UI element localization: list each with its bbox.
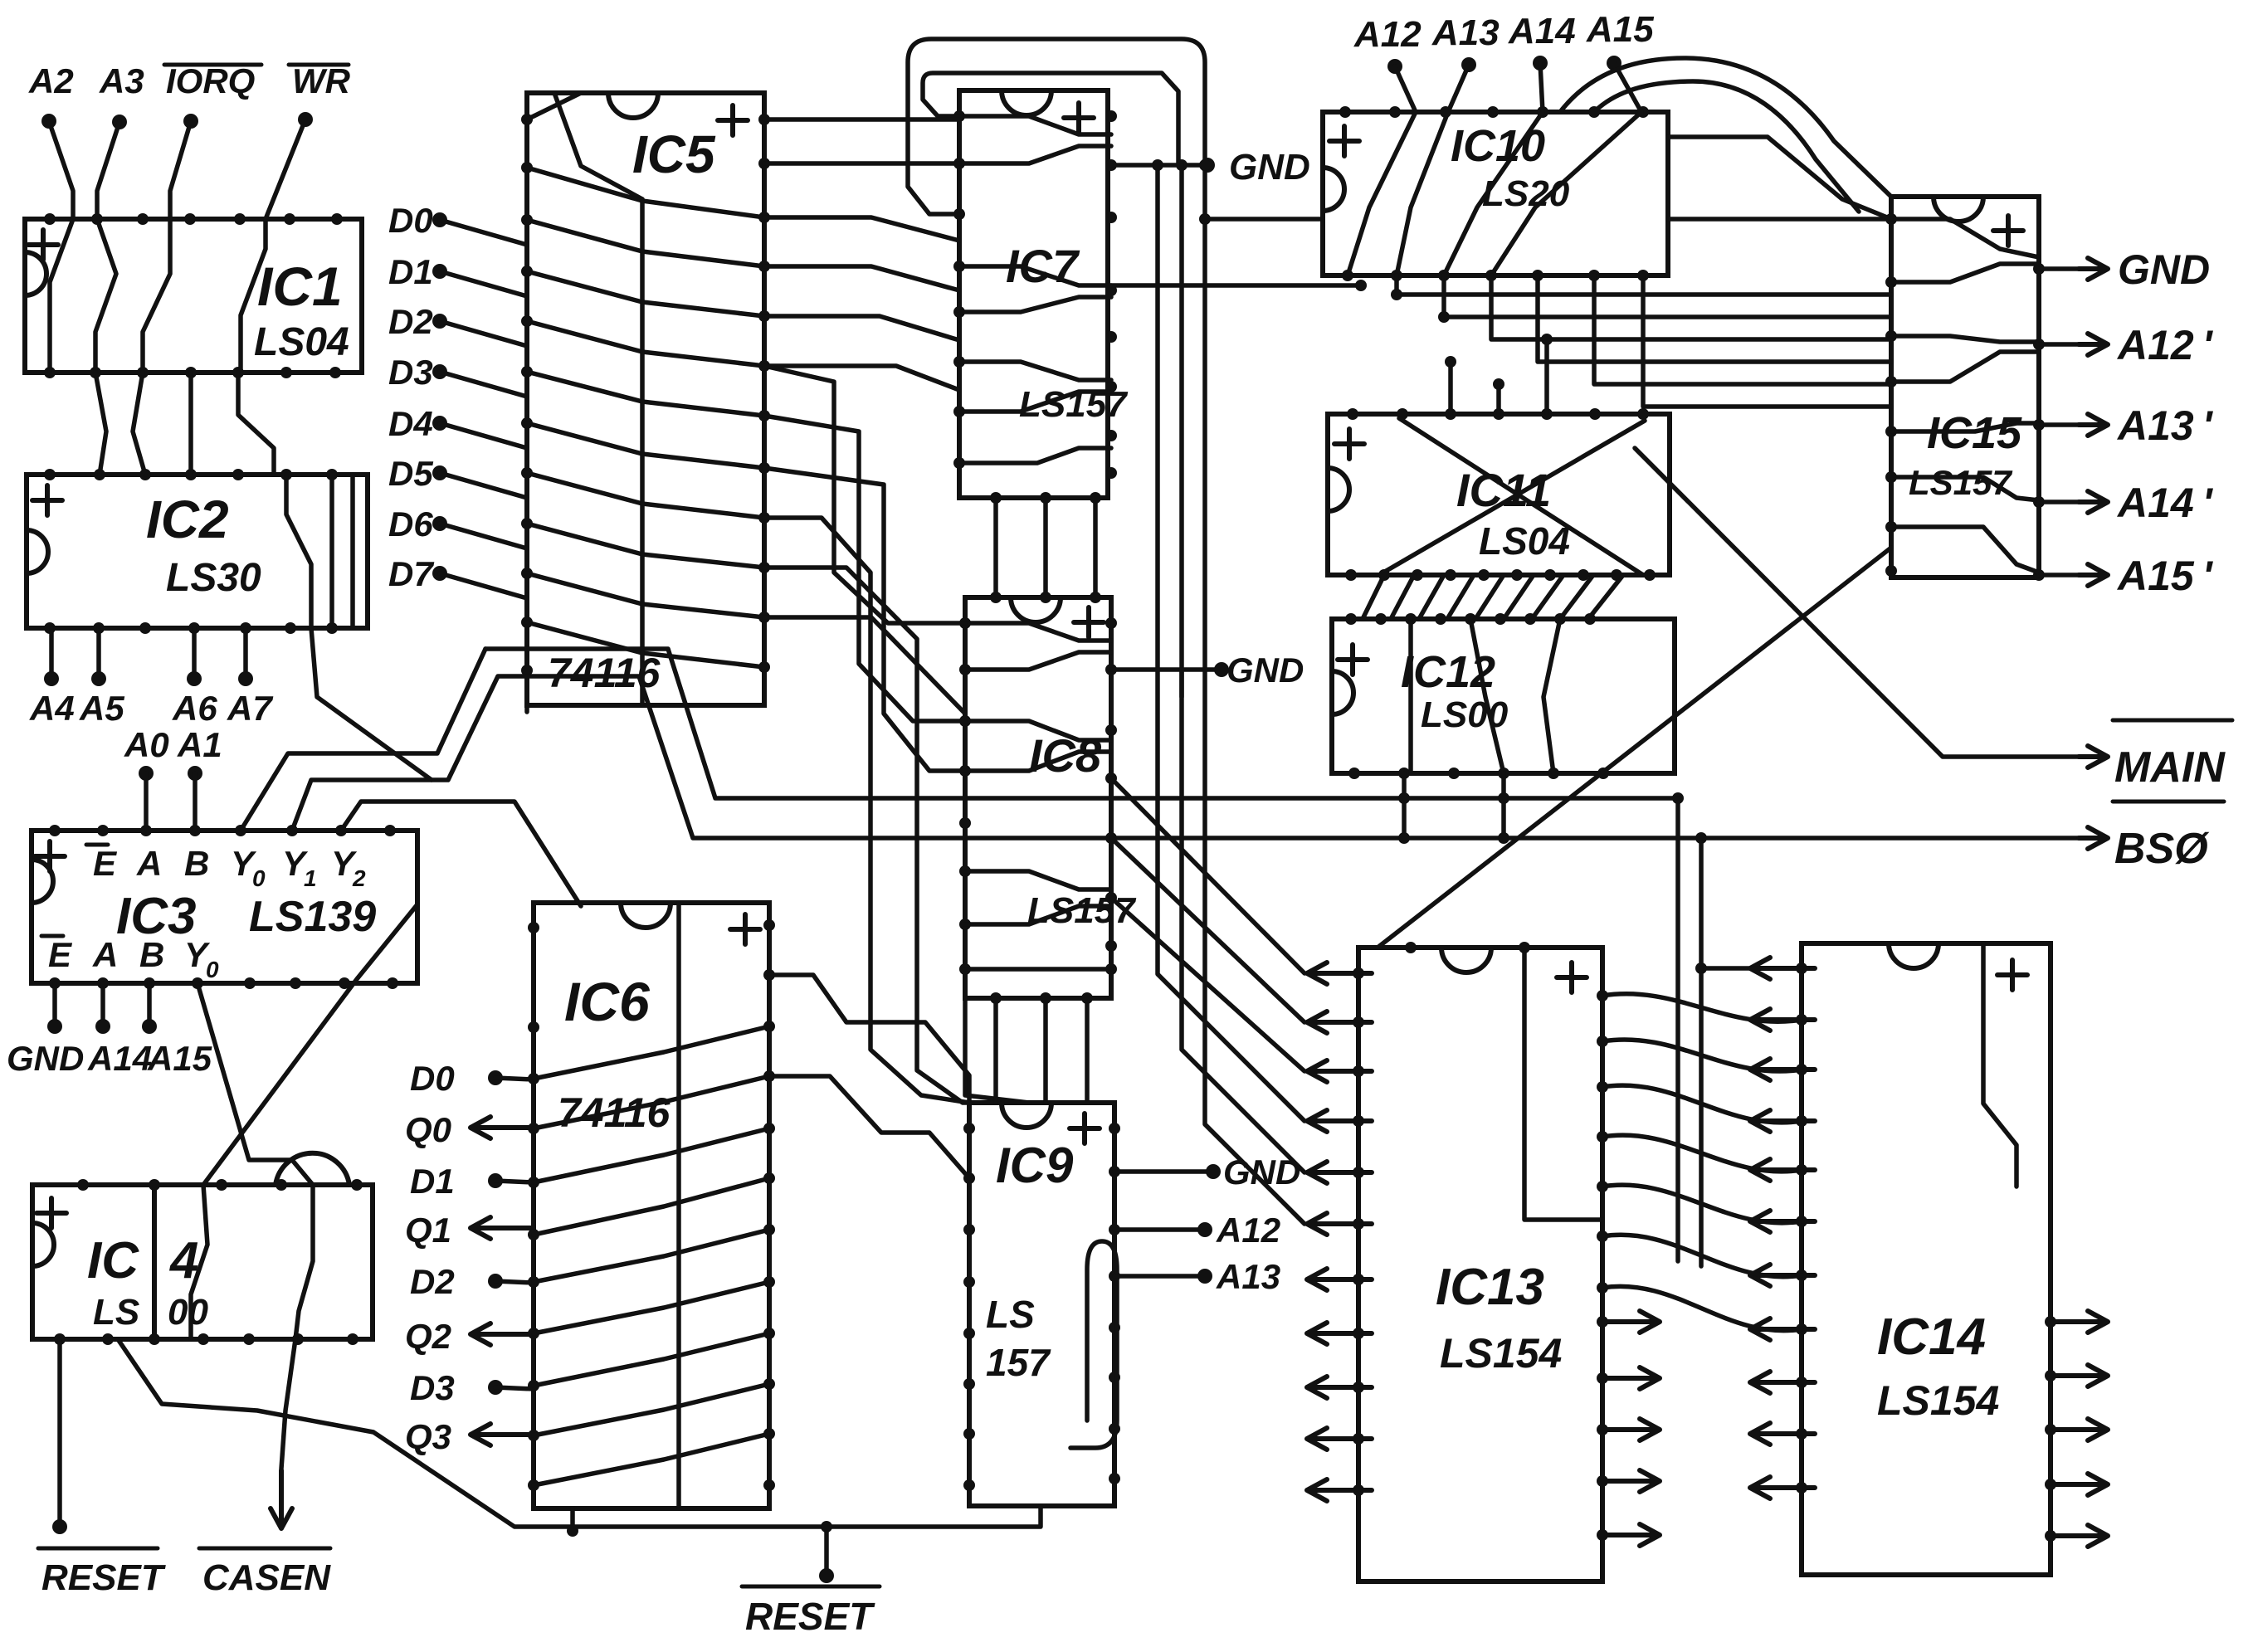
node GND at IC9 xyxy=(1114,1169,1213,1174)
IC4 bottom pin dots xyxy=(54,1333,358,1345)
svg-text:A4: A4 xyxy=(29,689,75,728)
IC15 wire to A13' xyxy=(1891,423,2039,431)
wire WR to IC1/IC2 xyxy=(241,119,305,373)
IC6 box 74116 xyxy=(534,903,769,1508)
IC1 plus (pin14 +) xyxy=(28,230,58,260)
wire A14 lead xyxy=(1540,63,1543,112)
node A7 xyxy=(243,628,248,679)
IC1 top pin dots xyxy=(44,213,343,225)
wire GND top rail xyxy=(764,161,959,166)
IC5 internal vertical xyxy=(640,199,645,705)
wire IC5 down bundle a xyxy=(764,518,969,1103)
svg-text:00: 00 xyxy=(168,1292,208,1333)
wire IC1 to IC2 v1 xyxy=(95,373,106,475)
wire A13 lead xyxy=(1448,65,1469,112)
node GND right xyxy=(2039,266,2079,271)
node D0 (IC6) xyxy=(488,1070,503,1085)
IC7 funnel 2 xyxy=(959,266,1111,285)
svg-text:D0: D0 xyxy=(410,1059,455,1098)
IC8 funnel 3 xyxy=(965,871,1111,889)
IC11 bottom pin dots xyxy=(1345,569,1656,581)
IC15 plus xyxy=(1993,216,2023,246)
IC10 top pin dots xyxy=(1339,106,1649,118)
node Q2 (IC6) xyxy=(471,1323,534,1345)
node D2 (IC6) xyxy=(488,1274,503,1289)
wire IC5 to IC7 links xyxy=(764,117,959,122)
wire bus vertical B xyxy=(1182,165,1304,1172)
wire IC6 to IC9 step a xyxy=(769,975,969,1103)
svg-text:LS139: LS139 xyxy=(249,893,376,941)
wire staircase S2 / BS0 rail xyxy=(292,676,2079,838)
svg-text:GND: GND xyxy=(1229,147,1310,188)
svg-text:GND: GND xyxy=(2118,246,2210,293)
svg-text:IC9: IC9 xyxy=(996,1138,1074,1193)
svg-text:D1: D1 xyxy=(410,1162,455,1201)
wire staircase S1 from IC3 Y0 xyxy=(241,649,485,831)
svg-text:IC5: IC5 xyxy=(632,124,716,184)
wire IC6 bottom stub xyxy=(570,1508,575,1531)
IC7 funnel 1 xyxy=(959,116,1111,134)
svg-text:E: E xyxy=(93,844,118,883)
node D1 (IC6) xyxy=(488,1173,503,1188)
IC3 top pin dots xyxy=(49,825,396,836)
svg-text:IORQ: IORQ xyxy=(166,61,255,101)
svg-text:D7: D7 xyxy=(388,554,434,593)
node BS0 label xyxy=(2113,800,2224,804)
svg-text:E: E xyxy=(48,935,73,974)
node A14 under IC3 xyxy=(100,983,105,1026)
svg-text:A15: A15 xyxy=(147,1039,212,1078)
node Q0 (IC6) xyxy=(471,1117,534,1138)
svg-text:LS154: LS154 xyxy=(1877,1377,1999,1424)
IC7 funnel 3 xyxy=(959,362,1111,380)
svg-text:Q2: Q2 xyxy=(405,1317,451,1357)
wire crossings top right xyxy=(1668,137,1891,219)
node D4 xyxy=(432,416,447,431)
svg-text:LS157: LS157 xyxy=(1027,890,1137,931)
IC7 left pin dots xyxy=(953,110,965,469)
wire WR through IC2 xyxy=(286,475,311,628)
svg-text:A15: A15 xyxy=(1586,9,1654,50)
IC5 box 74116 xyxy=(527,93,764,705)
IC9 plus xyxy=(1070,1114,1100,1143)
svg-text:LS04: LS04 xyxy=(1479,519,1570,563)
svg-text:A12 ': A12 ' xyxy=(2116,322,2214,368)
IC10 box LS20 xyxy=(1323,112,1668,275)
svg-text:0: 0 xyxy=(252,865,266,891)
svg-text:IC6: IC6 xyxy=(564,971,651,1032)
node MAIN label xyxy=(2113,719,2232,723)
svg-text:A12: A12 xyxy=(1353,14,1422,55)
IC6 internal vertical xyxy=(676,903,681,1508)
svg-text:A13: A13 xyxy=(1431,12,1500,53)
IC4 box LS00 xyxy=(32,1185,373,1339)
wire IC1 to IC2 v4 xyxy=(238,373,274,475)
wire D3 lead xyxy=(495,1387,534,1389)
node A4 xyxy=(49,628,54,679)
IC13 box LS154 xyxy=(1358,948,1602,1581)
IC2 plus xyxy=(32,485,62,515)
wire bundle crossing dots xyxy=(1391,289,1553,390)
IC8 box LS157 xyxy=(965,597,1111,998)
wire IC8-IC9 vertical links xyxy=(993,998,998,1103)
wire bus crossing dots xyxy=(1152,159,1211,171)
node A5 xyxy=(96,628,101,679)
wire D6 lead xyxy=(440,524,527,548)
IC4 divider xyxy=(152,1185,157,1339)
node A12 at IC9 xyxy=(1114,1227,1205,1232)
IC8 funnel 2 xyxy=(965,721,1111,740)
wire broom IC11 to IC12 xyxy=(1363,575,1384,619)
wire wavy IC13 to IC14 xyxy=(1602,994,1802,1021)
svg-text:A14: A14 xyxy=(87,1039,152,1078)
node A12 top xyxy=(1387,59,1402,74)
wire D7 lead xyxy=(440,573,527,598)
wire IC8 corner down to IC9 xyxy=(965,998,1029,1103)
node A1 xyxy=(188,766,202,781)
node A14' output xyxy=(2039,499,2079,504)
svg-text:LS: LS xyxy=(93,1292,139,1333)
IC8 right pin dots xyxy=(1105,617,1117,975)
wire IC10 curve to IC15 xyxy=(1560,58,1891,197)
IC3 box LS139 xyxy=(32,831,417,983)
IC5 right pin dots xyxy=(758,114,770,673)
wire IC6 to IC9 step b xyxy=(769,1076,969,1178)
IC13 plus xyxy=(1557,962,1587,992)
node A14 top xyxy=(1533,56,1548,71)
wire A15 lead xyxy=(1614,63,1641,112)
wire IORQ to IC1 xyxy=(143,121,191,373)
IC14 left input arrows xyxy=(1750,958,1815,979)
wire D4 lead xyxy=(440,423,527,448)
wire A2 to IC1 xyxy=(49,121,73,373)
node A12' output xyxy=(2039,342,2079,347)
node GND mid xyxy=(1214,662,1229,677)
node D6 xyxy=(432,516,447,531)
wire MAIN diagonal xyxy=(1635,448,2079,757)
node CASEN xyxy=(271,1470,292,1528)
node D3 xyxy=(432,364,447,379)
IC5 plus xyxy=(718,105,748,135)
svg-text:A2: A2 xyxy=(28,61,74,100)
IC7 box LS157 xyxy=(959,90,1108,498)
wire D5 lead xyxy=(440,473,527,498)
wire A1 xyxy=(193,773,198,831)
IC7 plus xyxy=(1064,103,1094,133)
node A13' output xyxy=(2039,422,2079,427)
IC15 funnel 2 xyxy=(1891,336,2039,342)
svg-text:LS154: LS154 xyxy=(1440,1330,1562,1377)
svg-text:D1: D1 xyxy=(388,252,433,291)
wire loop over IC7 outer xyxy=(908,39,1304,1224)
IC9 box LS157 xyxy=(969,1103,1114,1506)
svg-text:0: 0 xyxy=(206,957,219,982)
svg-text:Q1: Q1 xyxy=(405,1211,451,1250)
svg-text:A1: A1 xyxy=(177,725,222,764)
wire staircase S3 xyxy=(341,802,581,906)
wire GND mid rail xyxy=(1111,667,1222,672)
wire IC11 top stubs xyxy=(1448,362,1453,414)
svg-text:A5: A5 xyxy=(79,689,124,728)
wire GND from IC8 riser xyxy=(1179,670,1184,697)
node D3 (IC6) xyxy=(488,1380,503,1395)
IC8 plus xyxy=(1074,607,1104,637)
svg-text:LS157: LS157 xyxy=(1909,463,2012,502)
svg-text:B: B xyxy=(139,935,164,974)
svg-text:B: B xyxy=(184,844,209,883)
wire D2 lead xyxy=(495,1281,534,1283)
wire verticals between IC13 and IC14 xyxy=(1675,798,1680,1261)
node A15' output xyxy=(2039,573,2079,577)
svg-text:Q3: Q3 xyxy=(405,1417,451,1457)
IC8 funnel 1 xyxy=(965,623,1111,641)
wire IC5 down bundle c xyxy=(764,617,965,714)
svg-text:157: 157 xyxy=(986,1341,1051,1384)
node RESET bottom center xyxy=(824,1527,829,1576)
svg-text:A14: A14 xyxy=(1508,11,1576,51)
wire A3 to IC1 xyxy=(95,122,119,373)
svg-text:A6: A6 xyxy=(172,689,217,728)
IC10 internal wires xyxy=(1348,112,1416,275)
wire IC5 to IC8 bundle 1 xyxy=(764,366,965,623)
IC2 top pin dots xyxy=(44,469,338,480)
IC14 right output arrows xyxy=(2051,1311,2108,1333)
svg-text:WR: WR xyxy=(292,61,351,100)
IC1 bottom pin dots xyxy=(44,367,341,378)
node D1 xyxy=(432,264,447,279)
IC6 plus xyxy=(730,914,760,944)
IC3 plus xyxy=(35,841,65,871)
IC13 internal vertical xyxy=(1524,948,1602,1220)
svg-text:A14 ': A14 ' xyxy=(2116,480,2214,526)
wire D2 lead xyxy=(440,321,527,346)
svg-text:A: A xyxy=(136,844,162,883)
wire D3 lead xyxy=(440,372,527,397)
svg-text:A: A xyxy=(92,935,118,974)
wire D1 lead xyxy=(495,1181,534,1182)
svg-text:A0: A0 xyxy=(124,725,169,764)
svg-text:D2: D2 xyxy=(388,302,433,341)
IC14 internal vertical xyxy=(1983,943,2016,1187)
IC9 internal U loop xyxy=(1070,1241,1117,1448)
IC4 inner wire xyxy=(191,1185,207,1339)
wire bottom rail to RESET xyxy=(118,1339,1041,1527)
IC8 left pin dots xyxy=(959,617,971,975)
svg-text:1: 1 xyxy=(304,865,317,891)
svg-text:GND: GND xyxy=(7,1039,84,1078)
IC14 plus xyxy=(1997,960,2027,990)
IC12 bottom pin dots xyxy=(1348,768,1609,779)
IC10 plus xyxy=(1329,126,1359,156)
IC15 left pin dots xyxy=(1885,213,1897,577)
node D2 xyxy=(432,314,447,329)
IC6 right pin dots xyxy=(763,919,775,1491)
node A3 xyxy=(112,115,127,129)
svg-text:BSØ: BSØ xyxy=(2114,825,2210,873)
node D0 xyxy=(432,212,447,227)
IC11 top pin dots xyxy=(1347,408,1649,420)
IC11 box LS04 xyxy=(1328,414,1670,575)
svg-text:D0: D0 xyxy=(388,201,433,240)
wire IC1 to IC2 v3 xyxy=(188,373,193,475)
svg-text:A12: A12 xyxy=(1216,1211,1280,1250)
svg-text:D2: D2 xyxy=(410,1262,455,1301)
IC3 bottom pin dots xyxy=(49,977,398,989)
wire RESET rail dot xyxy=(821,1521,832,1533)
IC9 left pin dots xyxy=(963,1123,975,1491)
IC7 right pin dots xyxy=(1105,110,1117,479)
node RESET bottom left xyxy=(57,1339,62,1527)
wire D1 lead xyxy=(440,271,527,296)
IC12 internal wires xyxy=(1408,619,1413,773)
wire D0 lead xyxy=(440,220,527,245)
IC13 left input arrows xyxy=(1307,962,1372,984)
node A15 under IC3 xyxy=(147,983,152,1026)
wire IC1 to IC2 v2 xyxy=(133,373,145,475)
svg-text:A7: A7 xyxy=(227,689,273,728)
IC12 box LS00 xyxy=(1332,619,1675,773)
svg-text:Q0: Q0 xyxy=(405,1110,451,1150)
wire Y0 to CASEN under arch xyxy=(198,983,313,1469)
svg-text:CASEN: CASEN xyxy=(202,1557,331,1598)
wire D0 lead xyxy=(495,1078,534,1079)
IC6 left pin dots xyxy=(528,922,539,1491)
IC15 funnel 1 xyxy=(1891,219,2039,257)
IC1 box LS04 xyxy=(25,219,362,373)
svg-text:IC1: IC1 xyxy=(257,256,343,317)
IC7 bottom wire xyxy=(959,448,1111,463)
wire IC7 to IC10 rail xyxy=(1111,283,1361,288)
IC8 bottom wire xyxy=(965,967,1111,972)
wire IC7-IC8 gap verticals xyxy=(993,498,998,597)
IC12 top pin dots xyxy=(1345,613,1596,625)
wire diag bus to IC13 arrows xyxy=(1111,778,1304,973)
svg-text:A13 ': A13 ' xyxy=(2116,402,2214,449)
wire X cross IC3-IC4 b xyxy=(203,904,417,1185)
wire IC10 right to IC15 top xyxy=(1668,217,1891,222)
wire IC12 bottom stubs xyxy=(1402,773,1407,838)
svg-text:A15 ': A15 ' xyxy=(2116,553,2214,599)
node GND under IC3 xyxy=(52,983,57,1026)
node Q1 (IC6) xyxy=(471,1217,534,1239)
IC9 right pin dots xyxy=(1109,1123,1120,1484)
svg-text:D6: D6 xyxy=(388,504,433,543)
node A6 xyxy=(192,628,197,679)
wire IC8 bottom dots xyxy=(990,992,1093,1004)
wire WR down to routing xyxy=(311,628,432,780)
IC6 internal wires xyxy=(534,1026,769,1079)
wire into IC10 left xyxy=(1205,217,1323,222)
svg-text:D3: D3 xyxy=(410,1368,455,1407)
wire IC10 to IC15 bundle xyxy=(1397,275,1891,295)
IC15 wire to A14' xyxy=(1891,477,2039,500)
wire IC5 to IC8 bundle 2 xyxy=(764,416,965,721)
IC11 internal X wires xyxy=(1399,418,1643,575)
IC13 top pin dots xyxy=(1405,942,1530,953)
IC5 internal wires xyxy=(527,93,581,119)
node A13 top xyxy=(1461,57,1476,72)
svg-text:LS30: LS30 xyxy=(166,556,261,600)
wire big diagonal IC15 to IC13 xyxy=(1378,548,1891,948)
wire loop over IC7 inner xyxy=(923,73,1178,165)
IC15 wire to A15' xyxy=(1891,527,2039,573)
wire IC5 to IC8 bundle 3 xyxy=(764,468,965,771)
svg-text:RESET: RESET xyxy=(745,1595,875,1638)
svg-text:GND: GND xyxy=(1226,651,1304,690)
svg-text:IC14: IC14 xyxy=(1877,1308,1986,1366)
wire IC5 down bundle b xyxy=(764,568,1000,1103)
IC2 box LS30 xyxy=(27,475,368,628)
node A15 top xyxy=(1607,56,1621,71)
IC15 right pin dots xyxy=(2033,263,2045,581)
node A2 xyxy=(41,114,56,129)
IC4 wire hop arch xyxy=(276,1153,349,1185)
IC15 box LS157 xyxy=(1891,197,2039,577)
node D7 xyxy=(432,566,447,581)
svg-text:IC2: IC2 xyxy=(146,490,229,549)
svg-text:A13: A13 xyxy=(1216,1257,1280,1296)
svg-text:A3: A3 xyxy=(99,61,144,100)
wire A12 lead xyxy=(1395,66,1416,112)
wire inner curve to IC15 xyxy=(1594,81,1859,212)
wire horizontal rail H1 xyxy=(485,649,1678,798)
svg-text:D3: D3 xyxy=(388,353,433,392)
svg-text:MAIN: MAIN xyxy=(2114,743,2226,792)
IC2 bottom pin dots xyxy=(44,622,338,634)
IC4 plus xyxy=(37,1198,66,1228)
IC5 left edge extension xyxy=(524,705,529,712)
IC14 box LS154 xyxy=(1802,943,2051,1575)
svg-text:D4: D4 xyxy=(388,404,433,443)
node Q3 (IC6) xyxy=(471,1424,534,1445)
svg-text:RESET: RESET xyxy=(41,1557,166,1598)
wire IC2 right vertical 2 xyxy=(350,475,355,628)
node D5 xyxy=(432,465,447,480)
IC5 left pin dots xyxy=(521,114,533,676)
node WR xyxy=(298,112,313,127)
svg-text:IC: IC xyxy=(87,1232,139,1289)
node A0 xyxy=(139,766,154,781)
wire A0 xyxy=(144,773,149,831)
wire bus vertical A xyxy=(1158,165,1304,1121)
svg-text:LS04: LS04 xyxy=(254,320,349,364)
IC11 plus xyxy=(1334,429,1364,459)
IC10 bottom pin dots xyxy=(1342,270,1649,281)
svg-text:2: 2 xyxy=(352,865,366,891)
svg-text:D5: D5 xyxy=(388,454,433,493)
IC4 top pin dots xyxy=(77,1179,363,1191)
node A13 at IC9 xyxy=(1114,1274,1205,1279)
IC12 plus xyxy=(1338,645,1368,675)
node GND top xyxy=(1200,158,1215,173)
IC13 right output arrows xyxy=(1602,1311,1660,1333)
wire to IC14 first input xyxy=(1701,966,1802,971)
wire IC2 right vertical xyxy=(329,475,334,628)
svg-text:IC13: IC13 xyxy=(1436,1259,1544,1316)
node IORQ xyxy=(183,114,198,129)
svg-text:LS: LS xyxy=(986,1293,1035,1336)
